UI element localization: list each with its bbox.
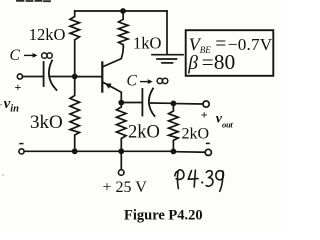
- svg-text:+: +: [201, 108, 208, 122]
- node bottom right: [171, 149, 177, 155]
- wire top rail: [75, 10, 167, 12]
- wire capacitor to output node: [151, 102, 171, 104]
- wire emitter node to capacitor: [124, 102, 142, 104]
- label minus input: [19, 143, 23, 145]
- wire bottom rail: [24, 150, 173, 152]
- wire supply stem: [120, 151, 122, 169]
- node top junction: [120, 8, 126, 14]
- scan speck left edge: [0, 104, 2, 106]
- terminal output top: [203, 101, 209, 107]
- node emitter junction: [118, 100, 124, 106]
- emitter arrow: [105, 83, 112, 89]
- wire output top to terminal: [176, 103, 203, 105]
- transistor Q1 PNP: [76, 47, 123, 101]
- svg-text:Figure P4.20: Figure P4.20: [124, 208, 203, 224]
- node base junction: [72, 74, 78, 80]
- parameter box: [186, 30, 274, 76]
- node output top: [171, 101, 177, 107]
- capacitor C1 input: [44, 61, 57, 91]
- ground: [152, 55, 183, 63]
- svg-text:12kO: 12kO: [29, 25, 66, 44]
- wire right vertical to ground: [166, 11, 168, 54]
- svg-text:1kO: 1kO: [133, 34, 162, 53]
- svg-text:2kO: 2kO: [128, 123, 160, 143]
- base bar: [101, 62, 103, 91]
- wire capacitor to base node: [49, 76, 73, 78]
- collector lead: [103, 47, 123, 67]
- terminal input bottom: [19, 149, 24, 154]
- svg-text:3kO: 3kO: [30, 112, 63, 133]
- resistor 3kO: [70, 77, 80, 152]
- svg-text:2kO: 2kO: [182, 126, 210, 143]
- wire input to capacitor: [23, 76, 43, 78]
- resistor 2kO emitter: [117, 103, 127, 152]
- label C to infinity output: [127, 73, 168, 90]
- wire base: [76, 76, 101, 78]
- node bottom supply: [118, 148, 124, 154]
- svg-text:+: +: [15, 80, 22, 94]
- capacitor C2 output: [142, 89, 154, 117]
- wire output bottom to terminal: [176, 151, 206, 154]
- svg-text:C: C: [127, 73, 138, 90]
- svg-text:β=80: β=80: [187, 50, 235, 74]
- svg-text:vout: vout: [216, 112, 234, 130]
- handwritten P4.39: [175, 170, 224, 191]
- terminal output bottom: [205, 149, 211, 155]
- label C to infinity input: [10, 47, 53, 64]
- resistor 1kO: [119, 11, 129, 47]
- resistor 2kO load: [169, 103, 179, 151]
- terminal input top: [17, 74, 22, 79]
- terminal +25V supply: [118, 170, 124, 176]
- svg-text:C: C: [10, 47, 21, 64]
- resistor 12kO: [70, 11, 80, 77]
- label minus output: [206, 142, 210, 144]
- scan speck left lower: [2, 174, 3, 175]
- top edge scan artifact: [17, 0, 50, 2]
- svg-text:+ 25 V: + 25 V: [103, 179, 148, 196]
- emitter lead: [103, 82, 121, 101]
- node bottom left: [72, 148, 78, 154]
- svg-text:vin: vin: [4, 96, 20, 115]
